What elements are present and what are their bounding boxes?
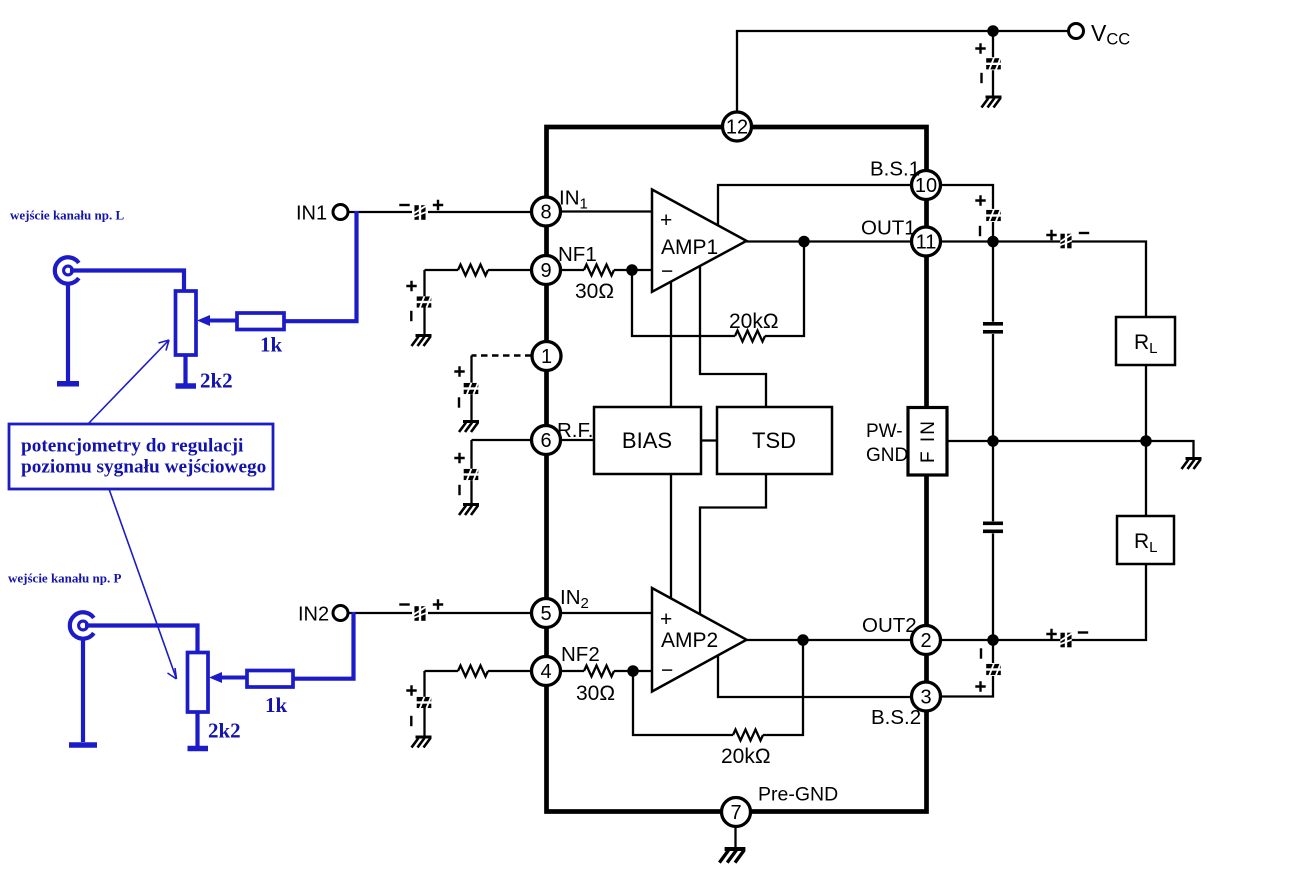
wire 1k to IN1 bbox=[284, 211, 357, 323]
capacitor C-NF1 bbox=[417, 295, 432, 310]
svg-text:1k: 1k bbox=[265, 693, 288, 717]
resistor NF2 series bbox=[488, 670, 532, 672]
block BIAS bbox=[594, 407, 701, 474]
ground VCC cap bbox=[982, 97, 1002, 108]
resistor RL1 bbox=[1116, 317, 1175, 365]
connector J1 RCA L bbox=[55, 257, 79, 283]
block F IN bbox=[908, 408, 947, 476]
ground bar J1 bbox=[57, 381, 79, 387]
svg-text:8: 8 bbox=[540, 202, 551, 224]
svg-text:2k2: 2k2 bbox=[208, 719, 241, 743]
wire OUT2 to load bbox=[941, 564, 1147, 640]
svg-text:F IN: F IN bbox=[918, 419, 939, 463]
svg-text:Pre-GND: Pre-GND bbox=[758, 784, 838, 806]
svg-text:6: 6 bbox=[540, 430, 551, 452]
svg-text:R.F.: R.F. bbox=[557, 419, 593, 442]
svg-text:TSD: TSD bbox=[752, 428, 796, 453]
svg-text:NF1: NF1 bbox=[558, 243, 597, 266]
svg-text:IN2: IN2 bbox=[298, 604, 329, 626]
wire RL2 top bbox=[1145, 441, 1147, 516]
pin 4 bbox=[532, 657, 561, 686]
wire J2 to P2 bbox=[85, 623, 198, 652]
annotation box bbox=[9, 424, 273, 489]
svg-text:5: 5 bbox=[540, 603, 551, 625]
wire PW-GND line bbox=[947, 441, 1194, 457]
wiper P2 bbox=[209, 672, 222, 683]
svg-text:7: 7 bbox=[730, 802, 741, 824]
capacitor C decoupling VCC bbox=[986, 56, 1001, 71]
svg-text:1k: 1k bbox=[260, 333, 283, 357]
connector J2 RCA P bbox=[70, 612, 94, 638]
resistor 20k ch2 bbox=[633, 671, 733, 735]
capacitor C-BS1 bbox=[986, 208, 1001, 223]
wire AMP1 output bbox=[747, 240, 912, 242]
ground bar P1 bbox=[176, 383, 197, 389]
capacitor C np top bbox=[992, 242, 994, 442]
svg-text:12: 12 bbox=[726, 117, 748, 139]
wire IN2 input bbox=[348, 612, 532, 614]
resistor 30ohm ch2 bbox=[561, 670, 584, 672]
op-amp AMP1 bbox=[652, 190, 747, 292]
node NF2 junction bbox=[628, 666, 637, 675]
wire pin3 bootstrap bbox=[941, 640, 994, 697]
wire B.S.2 bbox=[718, 656, 912, 697]
node PW-GND x1146 bbox=[1141, 436, 1150, 445]
svg-text:BIAS: BIAS bbox=[622, 428, 672, 453]
terminal VCC bbox=[1069, 24, 1084, 39]
pin 7 bbox=[722, 798, 751, 827]
wire 1k to IN2 bbox=[293, 612, 354, 681]
node NF1 junction bbox=[627, 265, 636, 274]
node OUT2 bbox=[988, 635, 997, 644]
wire BIAS to AMP1 bbox=[670, 282, 672, 408]
svg-text:−: − bbox=[661, 659, 673, 682]
annotation arrow to P2 bbox=[109, 489, 177, 679]
resistor 30ohm ch1 bbox=[561, 269, 584, 271]
ground C-NF1 bbox=[412, 336, 432, 347]
wire BIAS to TSD bbox=[701, 439, 717, 441]
node AMP1 out junction bbox=[799, 237, 808, 246]
terminal IN2 bbox=[333, 606, 348, 621]
ground C-NF2 bbox=[412, 737, 432, 748]
capacitor C pin6 bbox=[464, 467, 479, 482]
wire J1 to P1 bbox=[70, 268, 184, 291]
svg-text:30Ω: 30Ω bbox=[576, 682, 615, 705]
pin 2 bbox=[912, 626, 941, 655]
capacitor C-OUT2 bbox=[1059, 632, 1074, 647]
wire TSD to AMP1 bbox=[700, 266, 766, 407]
resistor 1k P bbox=[247, 671, 293, 688]
wire pin6 to BIAS bbox=[561, 439, 595, 441]
svg-text:wejście kanału np. L: wejście kanału np. L bbox=[10, 208, 124, 223]
wire RL1 to PW-GND bbox=[1145, 365, 1147, 441]
svg-text:AMP2: AMP2 bbox=[661, 629, 718, 652]
svg-text:GND: GND bbox=[866, 445, 908, 466]
terminal IN1 bbox=[333, 205, 348, 220]
svg-text:20kΩ: 20kΩ bbox=[721, 745, 771, 768]
wire B.S.1 bbox=[718, 185, 912, 226]
wire P1 bottom bbox=[183, 355, 187, 384]
wire TSD to AMP2 bbox=[700, 474, 766, 615]
IC outline U1 bbox=[547, 127, 927, 812]
block TSD bbox=[717, 407, 832, 474]
node AMP2 out junction bbox=[798, 635, 807, 644]
svg-text:20kΩ: 20kΩ bbox=[729, 310, 779, 333]
svg-text:AMP1: AMP1 bbox=[661, 236, 718, 259]
svg-text:B.S.2: B.S.2 bbox=[871, 706, 921, 729]
wire pin7 ground stem bbox=[734, 827, 736, 849]
svg-text:−: − bbox=[661, 260, 673, 283]
capacitor C-IN1 bbox=[413, 205, 428, 220]
wire pin1 dashed bbox=[472, 354, 532, 357]
wire pin8 to AMP1 bbox=[561, 210, 653, 212]
svg-text:2k2: 2k2 bbox=[200, 369, 233, 393]
resistor 20k ch1 bbox=[632, 270, 735, 336]
ground C pin6 bbox=[459, 505, 479, 516]
capacitor C-BS2 bbox=[986, 662, 1001, 677]
capacitor C-OUT1 bbox=[1059, 233, 1074, 248]
svg-text:IN1: IN1 bbox=[296, 203, 327, 225]
svg-text:OUT1: OUT1 bbox=[861, 217, 916, 240]
resistor RL2 bbox=[1117, 516, 1174, 564]
pin 1 bbox=[532, 342, 561, 371]
op-amp AMP2 bbox=[652, 588, 747, 692]
wire pin6 left cap bbox=[472, 440, 532, 469]
svg-text:potencjometry do regulacji: potencjometry do regulacji bbox=[21, 436, 244, 457]
svg-text:PW-: PW- bbox=[866, 421, 903, 442]
wire IN1 input bbox=[348, 211, 532, 213]
node OUT1 bbox=[988, 237, 997, 246]
wire VCC rail bbox=[737, 31, 1068, 125]
svg-text:+: + bbox=[660, 209, 672, 232]
wire BIAS to AMP2 bbox=[670, 474, 672, 599]
pin 5 bbox=[532, 599, 561, 628]
ground bar J2 bbox=[69, 742, 97, 748]
ground PW-GND bbox=[1182, 459, 1202, 470]
svg-text:3: 3 bbox=[920, 687, 931, 709]
svg-text:OUT2: OUT2 bbox=[862, 614, 917, 637]
svg-text:B.S.1: B.S.1 bbox=[870, 158, 920, 181]
node VCC junction bbox=[988, 26, 997, 35]
svg-text:2: 2 bbox=[920, 630, 931, 652]
svg-text:wejście kanału np. P: wejście kanału np. P bbox=[8, 571, 121, 586]
ground Pre-GND bbox=[719, 849, 745, 863]
svg-text:4: 4 bbox=[540, 661, 551, 683]
capacitor C pin1 bbox=[464, 381, 479, 396]
svg-text:+: + bbox=[660, 608, 672, 631]
wire OUT1 to load bbox=[941, 242, 1147, 318]
svg-text:30Ω: 30Ω bbox=[575, 280, 614, 303]
wire VCC cap lead bbox=[992, 31, 994, 97]
pin 6 bbox=[532, 426, 561, 455]
capacitor C np bottom bbox=[992, 441, 994, 640]
resistor 1k L bbox=[237, 313, 284, 330]
svg-text:9: 9 bbox=[540, 260, 551, 282]
pin 10 bbox=[912, 171, 941, 200]
wire AMP2 output bbox=[747, 639, 912, 641]
wire J2 body ground bbox=[81, 638, 85, 742]
svg-text:NF2: NF2 bbox=[561, 643, 600, 666]
svg-text:1: 1 bbox=[541, 346, 552, 368]
wire P2 bottom bbox=[195, 712, 199, 746]
pin 8 bbox=[532, 197, 561, 226]
wire pin10 bootstrap bbox=[941, 185, 994, 242]
pin 3 bbox=[912, 682, 941, 711]
wire J1 body ground bbox=[66, 283, 70, 381]
potentiometer P1 bbox=[176, 291, 197, 355]
svg-text:poziomu sygnału wejściowego: poziomu sygnału wejściowego bbox=[21, 457, 266, 478]
wiper P1 bbox=[197, 315, 210, 326]
annotation arrow to P1 bbox=[88, 340, 169, 424]
node PW-GND x993 bbox=[988, 436, 997, 445]
ground C pin1 bbox=[459, 422, 479, 433]
resistor NF1 series bbox=[488, 269, 532, 271]
pin 12 bbox=[723, 112, 752, 141]
capacitor C-IN2 bbox=[413, 606, 428, 621]
capacitor C-NF2 bbox=[417, 695, 432, 710]
wire pin5 to AMP2 bbox=[561, 612, 653, 614]
potentiometer P2 bbox=[188, 653, 209, 713]
svg-text:11: 11 bbox=[916, 232, 937, 254]
pin 11 bbox=[912, 227, 941, 256]
pin 9 bbox=[532, 256, 561, 285]
ground bar P2 bbox=[188, 746, 209, 752]
